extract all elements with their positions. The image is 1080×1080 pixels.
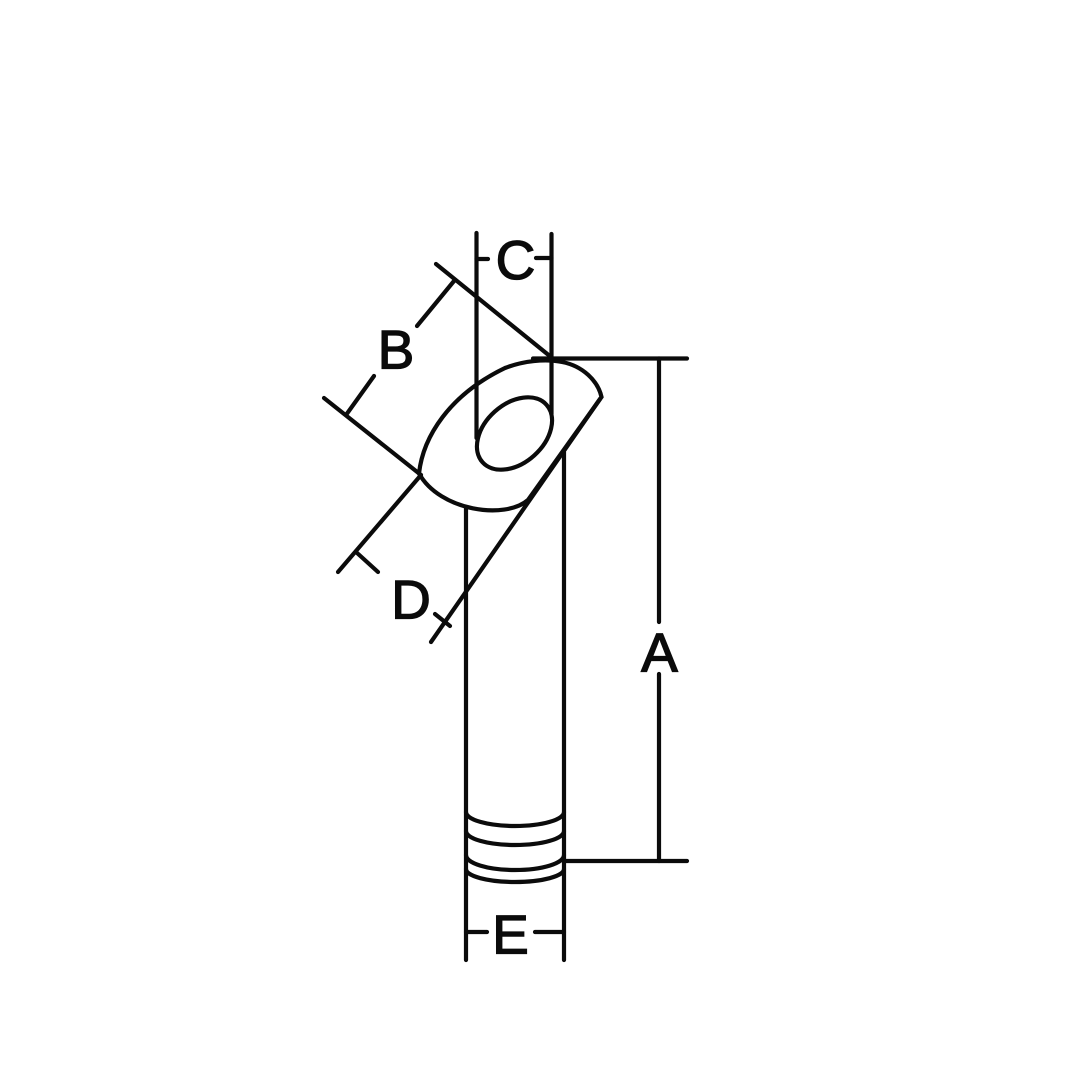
svg-text:D: D xyxy=(391,569,431,631)
svg-text:B: B xyxy=(378,319,415,381)
svg-text:E: E xyxy=(492,904,529,966)
svg-text:A: A xyxy=(641,622,678,684)
svg-text:C: C xyxy=(496,229,536,291)
